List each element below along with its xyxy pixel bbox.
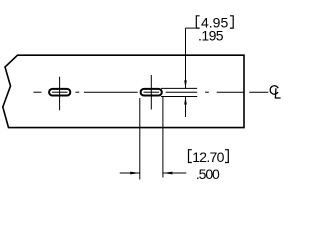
dimension .195 leader shoulder — [186, 27, 196, 29]
dimension .195 upper dimension line with down arrow — [184, 28, 187, 88]
svg-text:.195: .195 — [198, 28, 224, 44]
dimension .500 extension line A (slot left tangent) — [139, 98, 141, 180]
svg-text:12.70: 12.70 — [192, 149, 224, 165]
slot 1 vertical centerline — [59, 77, 61, 111]
dimension .500 extension line B (slot right tangent) — [162, 97, 164, 178]
slot 1 (left obround hole) — [49, 89, 70, 96]
dimension text .195 — [198, 28, 224, 44]
dimension .500 left dimension line with right arrow — [120, 172, 140, 175]
dimension text .500 — [196, 166, 220, 182]
slot 2 (right obround hole) — [141, 89, 162, 96]
dimension text [4.95] — [196, 15, 233, 31]
dimension .195 lower dimension line with up arrow — [184, 97, 187, 118]
horizontal centerline (dash-dot through both slots) — [33, 91, 268, 93]
centerline symbol ℄ — [270, 86, 280, 98]
dimension text [12.70] — [189, 149, 229, 165]
part outline with left break line — [3, 55, 244, 127]
dimension .195 extension lines (slot width) — [161, 88, 197, 96]
slot 2 vertical centerline — [150, 75, 152, 110]
dimension .500 right dimension line with left arrow — [163, 172, 186, 175]
svg-text:.500: .500 — [196, 166, 220, 182]
